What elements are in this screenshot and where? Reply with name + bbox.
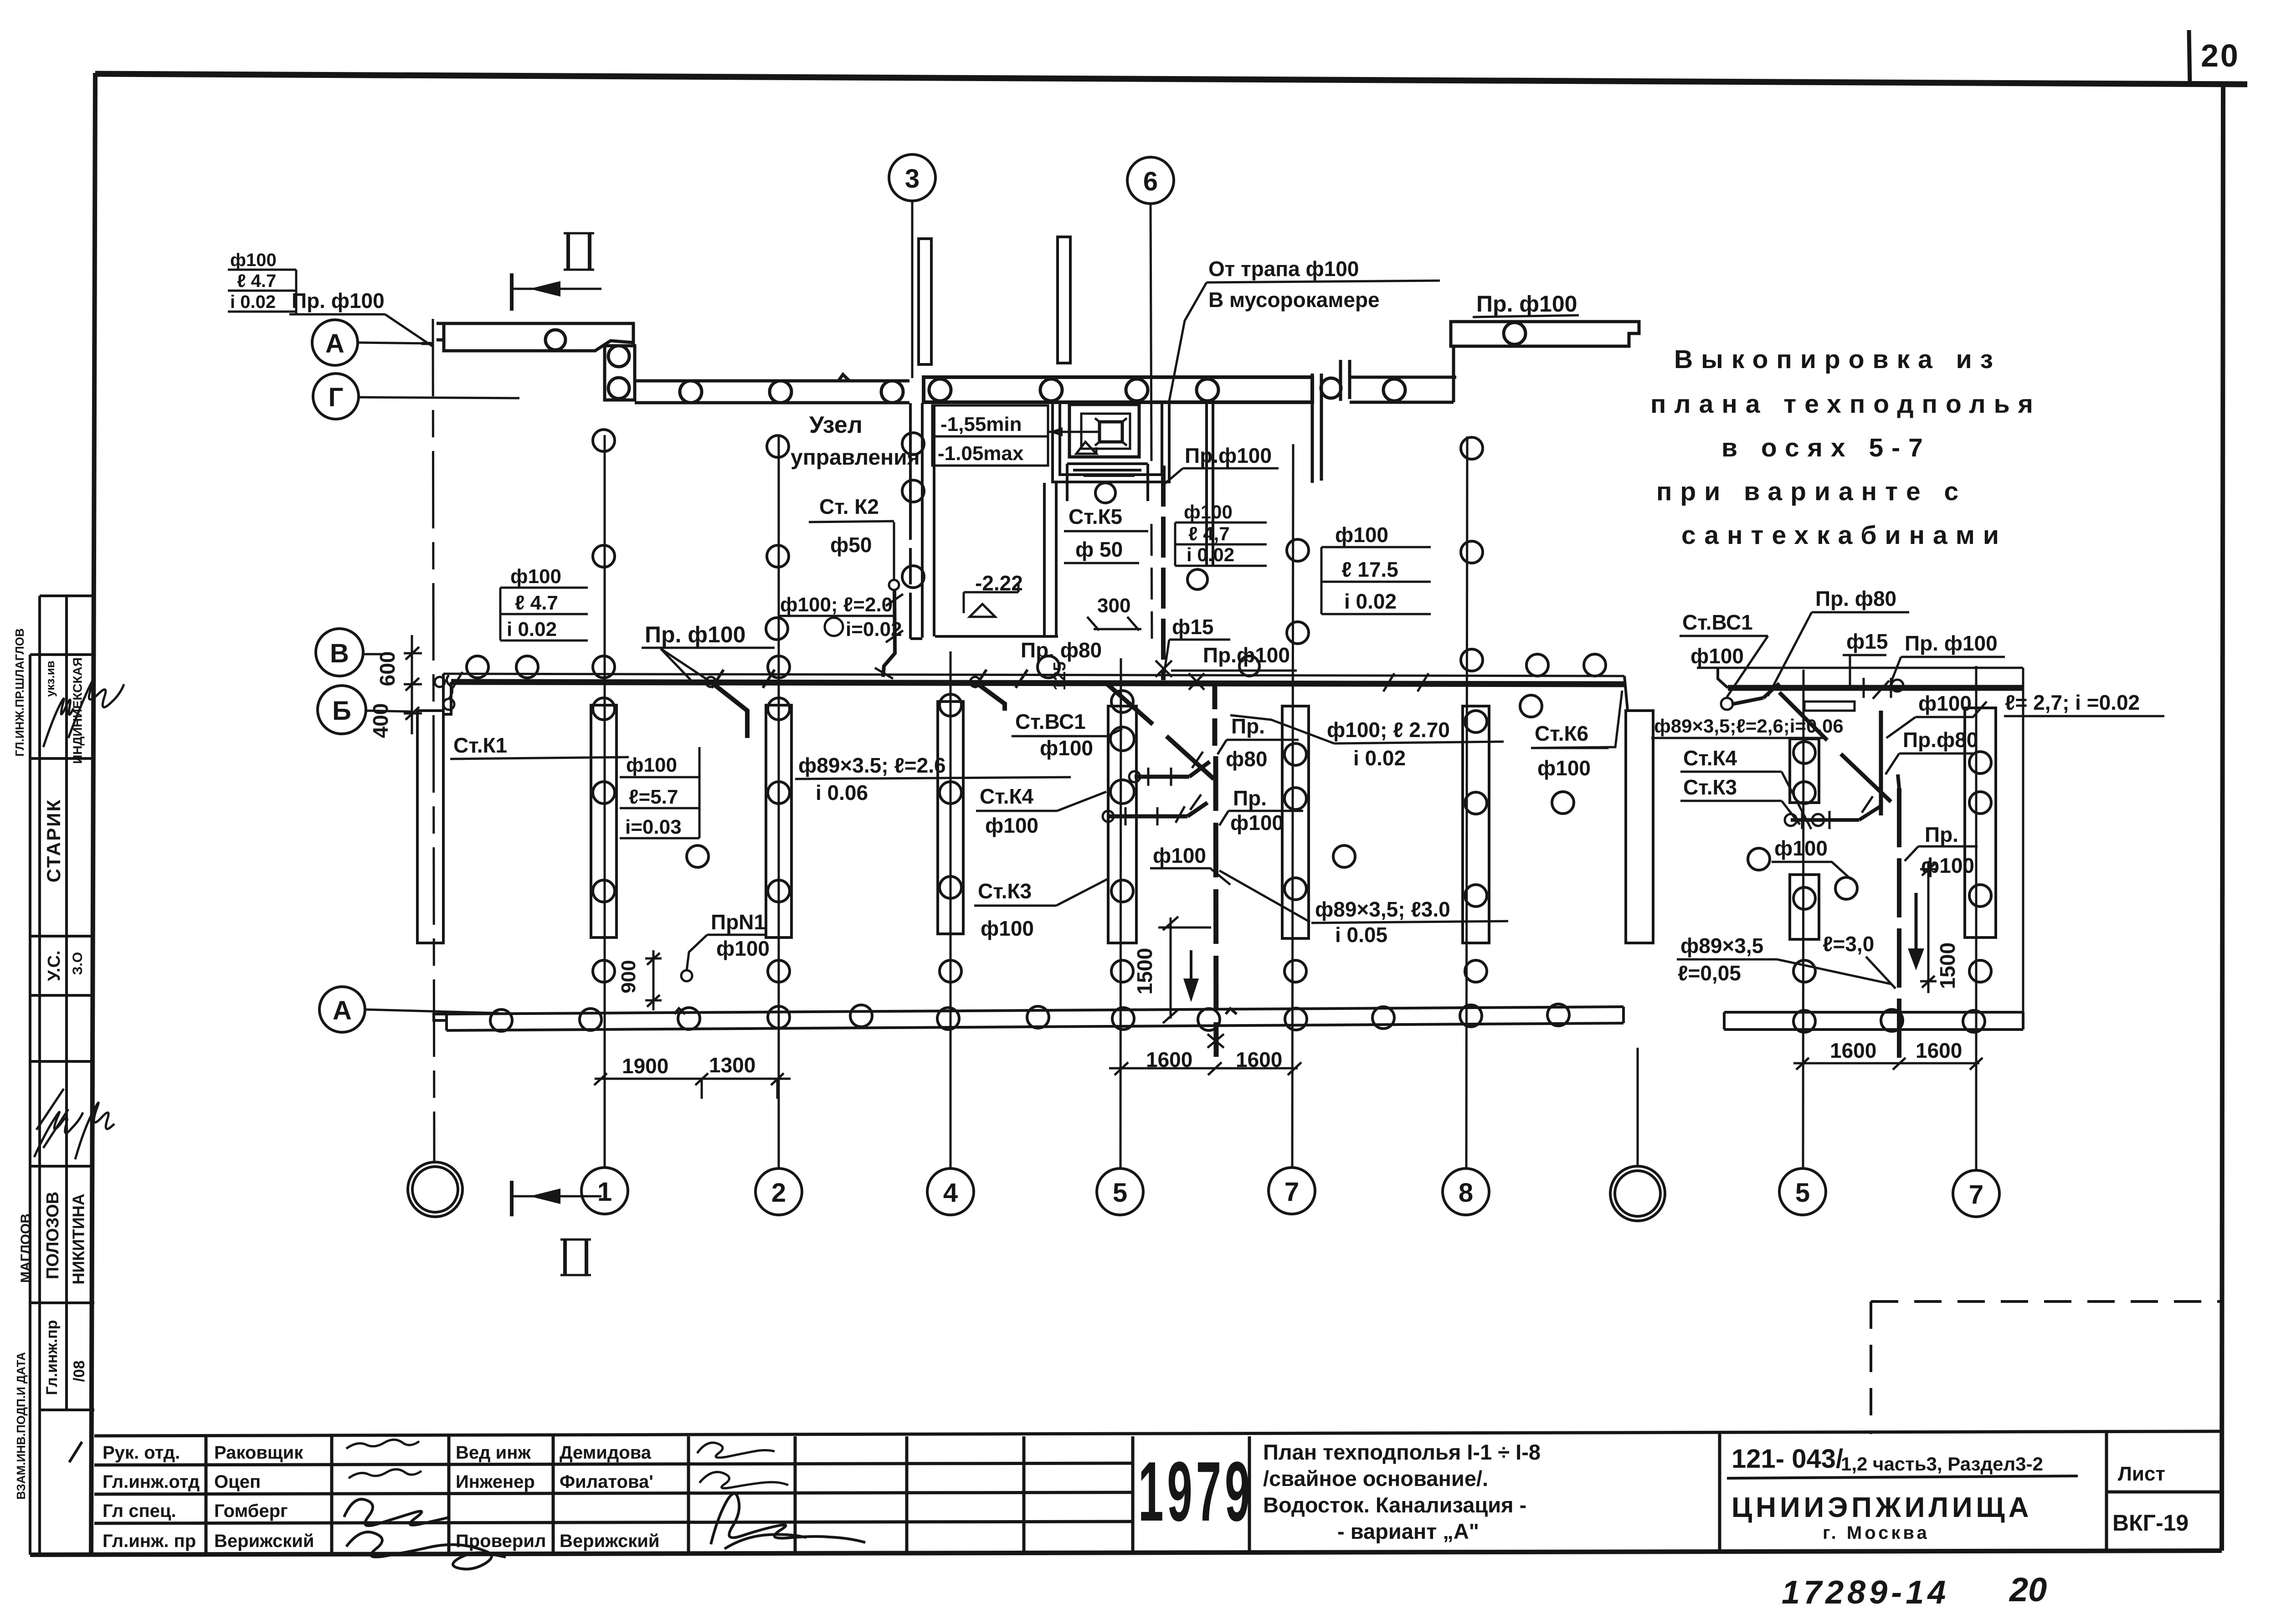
svg-text:Пр.ф100: Пр.ф100 xyxy=(1185,444,1272,467)
detail joint circles xyxy=(1785,814,1797,826)
svg-text:Ст.ВС1: Ст.ВС1 xyxy=(1015,710,1086,733)
svg-text:-2.22: -2.22 xyxy=(975,571,1023,595)
free pile circles between Б and А xyxy=(687,654,1606,982)
svg-text:600: 600 xyxy=(375,651,399,686)
svg-text:1: 1 xyxy=(597,1177,612,1207)
wall joint notch xyxy=(838,374,849,381)
stamp signature squiggle 2 xyxy=(34,1089,83,1157)
svg-text:ℓ=5.7: ℓ=5.7 xyxy=(629,786,678,808)
svg-text:ф100: ф100 xyxy=(1184,501,1233,523)
left step xyxy=(434,1014,447,1020)
leader Ст.К2 vertical xyxy=(893,522,895,579)
axis line 8 vertical xyxy=(1466,436,1467,1169)
underline Ст.ВС1 detail xyxy=(1680,635,1768,637)
svg-text:6: 6 xyxy=(1143,167,1158,196)
svg-text:ф15: ф15 xyxy=(1172,615,1213,639)
trap symbol hooks xyxy=(1095,418,1127,446)
pile circle xyxy=(1197,379,1218,401)
underline Пр ф80 mid xyxy=(1227,739,1299,741)
pile strip axis 8 xyxy=(1463,706,1489,943)
svg-text:1,2 часть3, Раздел3-2: 1,2 часть3, Раздел3-2 xyxy=(1841,1453,2043,1475)
small circle node detail left xyxy=(1721,698,1733,710)
pipe Б wall hatch marks xyxy=(452,672,1428,692)
leader ф100 2.70 xyxy=(1230,715,1334,743)
free pile circles row В xyxy=(467,430,1483,712)
axis circle 7 xyxy=(1269,1168,1315,1214)
svg-text:20: 20 xyxy=(2009,1571,2047,1609)
underline Ст.ВС1 main xyxy=(1012,735,1107,738)
underline ф89 3.0 xyxy=(1311,921,1508,923)
svg-text:СТАРИК: СТАРИК xyxy=(43,799,64,882)
underline Пр ф100 detail3 xyxy=(1918,845,1978,848)
svg-text:От трапа ф100: От трапа ф100 xyxy=(1208,257,1359,281)
svg-text:Пр. ф100: Пр. ф100 xyxy=(1905,631,1998,655)
branch pipe upper with ticks xyxy=(1135,762,1210,777)
svg-text:ф100: ф100 xyxy=(1921,854,1974,877)
corridor wall lines axis 3-4 xyxy=(910,403,1058,639)
svg-text:ф100; ℓ 2.70: ф100; ℓ 2.70 xyxy=(1327,718,1450,742)
pile circle xyxy=(881,381,903,403)
title block big signature col6 xyxy=(711,1494,865,1549)
svg-text:Ст.К3: Ст.К3 xyxy=(978,879,1032,903)
detail dim line 1600 1600 xyxy=(1793,1058,1983,1070)
svg-text:Гл.инж. пр: Гл.инж. пр xyxy=(103,1531,196,1551)
leader Ст.К4 К3 detail xyxy=(1782,772,1811,829)
title block big signature col3 xyxy=(344,1499,506,1569)
axis line 5 vertical xyxy=(1120,658,1121,1169)
stamp signature squiggle 1 xyxy=(43,699,73,747)
underline Пр ф100 far left xyxy=(289,313,385,316)
left stamp column grid xyxy=(30,596,94,1555)
level mark -2.22 xyxy=(964,582,1018,617)
stamp signature squiggle 1b xyxy=(68,677,124,738)
svg-text:ф100: ф100 xyxy=(626,754,677,776)
note text Выкопировка из плана xyxy=(1650,345,2041,550)
Ст.К2 drop pipe xyxy=(883,590,895,677)
detail pipe vertical ф100 xyxy=(1879,711,1883,815)
svg-text:МАГЛООВ: МАГЛООВ xyxy=(18,1214,33,1283)
pile circle xyxy=(1504,323,1526,344)
svg-text:400: 400 xyxy=(369,703,392,738)
leader Пр ф100 detail xyxy=(1891,657,1901,682)
svg-text:ф100: ф100 xyxy=(1230,811,1284,835)
svg-text:ф100: ф100 xyxy=(716,937,770,960)
svg-text:1979: 1979 xyxy=(1138,1444,1254,1539)
pipe elbow near axis 4 xyxy=(975,682,1005,711)
svg-text:ℓ 4.7: ℓ 4.7 xyxy=(237,271,276,291)
trap symbol box xyxy=(1099,422,1122,442)
leader l=3.0 xyxy=(1866,957,1896,989)
pile circle xyxy=(680,381,702,403)
row Б wall thin top line xyxy=(443,674,1624,676)
svg-text:3: 3 xyxy=(905,164,920,194)
title block signatures col3 xyxy=(346,1440,421,1478)
leader ф89x3.5 bottom xyxy=(1777,959,1891,984)
underline ф89x3.5 2.6 detail xyxy=(1651,737,1824,739)
svg-text:ВЗАМ.ИНВ.ПОДП.И ДАТА: ВЗАМ.ИНВ.ПОДП.И ДАТА xyxy=(14,1352,28,1500)
axis Г leader xyxy=(359,397,519,398)
svg-text:7: 7 xyxy=(1284,1177,1299,1207)
stamp signature squiggle 2b xyxy=(75,1102,114,1159)
pipe node small circles on Б xyxy=(435,677,445,687)
svg-text:Пр. ф80: Пр. ф80 xyxy=(1815,587,1896,610)
pile strip axis 7 xyxy=(1282,706,1309,938)
detail riser vertical lower xyxy=(1897,788,1901,1061)
underline l 2.7 xyxy=(2004,715,2164,717)
detail right dim line vertical xyxy=(2022,668,2024,1012)
pile strip left exterior blank axis xyxy=(417,711,443,943)
detail labels xyxy=(1654,587,2140,985)
svg-text:ЦНИИЭПЖИЛИЩА: ЦНИИЭПЖИЛИЩА xyxy=(1731,1492,2032,1523)
svg-text:ф100: ф100 xyxy=(1153,844,1206,867)
table ф100 2.0 axis3 xyxy=(780,594,902,640)
svg-text:Ст. К2: Ст. К2 xyxy=(819,495,879,518)
label ф89x3.5 3.0 xyxy=(1315,897,1450,947)
axis line 5 detail vertical xyxy=(1803,670,1803,1169)
svg-text:Оцеп: Оцеп xyxy=(214,1472,261,1492)
detail riser top part xyxy=(1898,774,1899,788)
small open circles pipe joints xyxy=(1103,811,1114,822)
ledge left tick xyxy=(421,340,444,343)
underline Ст.К4 main xyxy=(976,810,1057,812)
svg-text:З.О: З.О xyxy=(70,952,85,975)
axis circle A bottom xyxy=(319,987,365,1032)
sheet number tick xyxy=(2189,30,2190,86)
pile circles in row A wall xyxy=(490,1009,512,1031)
svg-text:i=0.03: i=0.03 xyxy=(625,816,682,838)
table ф100 17.5 axis7 xyxy=(1321,547,1431,614)
stamp slash mark xyxy=(69,1442,82,1462)
svg-text:Проверил: Проверил xyxy=(456,1531,546,1551)
pile strip axis 1 xyxy=(591,698,617,982)
svg-text:ВКГ-19: ВКГ-19 xyxy=(2112,1510,2189,1536)
svg-text:ℓ=3,0: ℓ=3,0 xyxy=(1823,932,1874,956)
detail pipe node ticks top xyxy=(1864,678,1891,699)
pile circle xyxy=(929,379,951,401)
svg-text:А: А xyxy=(333,996,352,1025)
corridor sewer riser thick xyxy=(1216,756,1216,1057)
wall block axis2 top xyxy=(605,346,635,400)
svg-text:Б: Б xyxy=(332,696,351,726)
underline ф89 main xyxy=(795,777,1071,779)
svg-text:Ст.К3: Ст.К3 xyxy=(1683,775,1737,799)
axis circle Г xyxy=(313,374,359,419)
svg-text:Гл спец.: Гл спец. xyxy=(103,1501,176,1521)
svg-text:План техподполья I-1 ÷ I-8: План техподполья I-1 ÷ I-8 xyxy=(1263,1440,1541,1464)
svg-text:ф89×3,5; ℓ3.0: ф89×3,5; ℓ3.0 xyxy=(1315,897,1450,921)
drain pipe from trap vertical xyxy=(1161,466,1165,483)
wall row Г left segment xyxy=(635,374,909,403)
svg-text:Раковщик: Раковщик xyxy=(214,1443,303,1463)
axis circle 4 xyxy=(927,1168,974,1215)
detail pile strip left lower xyxy=(1790,875,1819,939)
leader Ст.ВС1 detail xyxy=(1727,636,1768,697)
leader Пр ф80 mid xyxy=(1218,740,1227,754)
axis circle 5 detail xyxy=(1779,1168,1826,1215)
svg-text:ф89×3.5; ℓ=2.6: ф89×3.5; ℓ=2.6 xyxy=(798,753,946,777)
svg-text:ф100: ф100 xyxy=(230,250,277,270)
underline Пр ф100 lower mid xyxy=(1171,670,1297,672)
svg-text:-1,55min: -1,55min xyxy=(940,413,1022,435)
svg-text:ф100: ф100 xyxy=(1335,523,1388,547)
svg-text:7: 7 xyxy=(1969,1180,1983,1209)
small circle ПрN1 xyxy=(681,970,692,981)
frame right border xyxy=(2222,84,2223,1551)
svg-text:ГЛ.ИНЖ.ПР.ШЛАГЛОВ: ГЛ.ИНЖ.ПР.ШЛАГЛОВ xyxy=(13,628,26,757)
riser hatch x xyxy=(1156,661,1172,677)
dim 300 tick xyxy=(1087,617,1141,630)
svg-text:5: 5 xyxy=(1113,1178,1127,1208)
svg-text:Верижский: Верижский xyxy=(214,1531,314,1551)
leader Пр ф100 detail3 xyxy=(1905,846,1918,861)
axis circle 3 top xyxy=(889,154,935,201)
pile circle xyxy=(770,381,791,403)
corridor riser upper part xyxy=(1212,682,1218,747)
svg-text:Пр. ф100: Пр. ф100 xyxy=(645,622,745,647)
title block col2 names xyxy=(214,1443,314,1551)
leader Пр ф100 row В xyxy=(661,649,711,682)
fold mark dashed lines xyxy=(1871,1301,2222,1434)
axis 3 stem xyxy=(911,200,914,378)
svg-text:20: 20 xyxy=(2201,38,2240,73)
svg-text:укз.ив: укз.ив xyxy=(43,661,57,697)
title block year 1979 xyxy=(1138,1444,1254,1539)
svg-text:ℓ= 2,7; i =0.02: ℓ= 2,7; i =0.02 xyxy=(2005,691,2140,714)
title block drawing title xyxy=(1263,1440,1541,1543)
underline Пр ф80 detail2 xyxy=(1899,753,1973,755)
sanitary compartment Ст.К5 xyxy=(1067,464,1148,501)
axis line 4 vertical xyxy=(950,651,952,1169)
detail pile strip right xyxy=(1965,708,1996,938)
svg-text:Пр.: Пр. xyxy=(1925,823,1958,846)
svg-text:8: 8 xyxy=(1459,1178,1473,1208)
svg-text:ПрN1: ПрN1 xyxy=(711,910,766,934)
svg-text:ℓ 17.5: ℓ 17.5 xyxy=(1341,558,1398,581)
row Б wall left end cap xyxy=(443,674,451,714)
table ф100 5.7 axis1 low xyxy=(620,747,699,838)
leader Ст.ВС1 main xyxy=(1107,729,1122,736)
svg-text:ф100; ℓ=2.0: ф100; ℓ=2.0 xyxy=(780,594,893,616)
axis Б leader xyxy=(366,711,411,712)
svg-text:Ст.К6: Ст.К6 xyxy=(1535,722,1588,745)
svg-text:ф89×3,5: ф89×3,5 xyxy=(1680,934,1763,958)
frame top border xyxy=(95,74,2247,84)
underline Ст.К1 xyxy=(450,757,629,759)
axis circle blank left xyxy=(408,1162,462,1217)
svg-text:ф100: ф100 xyxy=(1537,756,1591,780)
detail free circles xyxy=(1748,848,1770,870)
leader ф15 detail xyxy=(1849,655,1851,686)
svg-text:НИКИТИНА: НИКИТИНА xyxy=(69,1194,88,1285)
axis circle 6 top xyxy=(1127,157,1174,204)
vent shaft rect right xyxy=(1058,237,1070,363)
detail bottom wall xyxy=(1724,1009,2023,1032)
svg-text:i 0.02: i 0.02 xyxy=(1344,589,1397,613)
underline ф15 detail xyxy=(1843,654,1886,656)
underline Ст.К2 xyxy=(809,521,894,522)
underline Пр ф80 horizontal xyxy=(1017,662,1110,664)
wall row Г right segment xyxy=(924,377,1312,402)
svg-text:Г: Г xyxy=(329,383,344,412)
leader ф89 3.0 xyxy=(1219,871,1310,922)
svg-text:2: 2 xyxy=(771,1178,786,1208)
svg-text:Выкопировка из: Выкопировка из xyxy=(1674,345,2001,374)
frame left border xyxy=(91,73,95,1555)
svg-text:Гомберг: Гомберг xyxy=(214,1501,288,1521)
svg-text:Пр. ф100: Пр. ф100 xyxy=(292,289,385,313)
table ф100 4.7 axis6 xyxy=(1175,523,1267,566)
row A wall band xyxy=(447,1007,1624,1014)
underline Пр ф100 detail xyxy=(1901,656,2005,658)
axis A bottom leader xyxy=(365,1009,499,1013)
table ф100 4.7 top-left xyxy=(228,270,296,314)
leader Ст.К6 xyxy=(1531,691,1622,748)
svg-text:ф80: ф80 xyxy=(1226,747,1267,771)
svg-text:Вед инж: Вед инж xyxy=(456,1443,531,1463)
label ф100 2.70 xyxy=(1327,718,1450,770)
pipe elbow near axis 2 xyxy=(711,682,747,738)
underline Ст.К6 xyxy=(1531,747,1608,749)
axis circle 2 xyxy=(755,1168,802,1215)
axis circle A top xyxy=(312,320,358,365)
pile strip right exterior blank axis xyxy=(1626,711,1653,943)
svg-text:i 0.02: i 0.02 xyxy=(230,292,276,312)
svg-text:/свайное основание/.: /свайное основание/. xyxy=(1263,1466,1488,1491)
trap leader arrow xyxy=(1048,431,1098,433)
svg-text:ф100: ф100 xyxy=(985,814,1038,837)
table lines ф100 2.0 xyxy=(778,615,894,617)
axis line 7 detail vertical xyxy=(1975,666,1978,1171)
axis line 1 vertical xyxy=(604,435,606,1168)
dim 1500 vertical main xyxy=(1158,917,1211,1023)
svg-text:1500: 1500 xyxy=(1936,943,1959,989)
leader Пр ф80 detail2 xyxy=(1886,753,1899,774)
pile circle in ledge xyxy=(545,330,565,350)
underline Пр ф100 upper mid xyxy=(1183,467,1279,470)
svg-text:300: 300 xyxy=(1097,594,1130,617)
svg-text:i 0.05: i 0.05 xyxy=(1335,923,1387,947)
axis circle 8 xyxy=(1443,1168,1489,1215)
Ст.К2 pipe hatches xyxy=(875,594,903,679)
svg-text:ф50: ф50 xyxy=(830,533,872,557)
row Б wall thick line xyxy=(451,682,1626,684)
underline ф100 detail2 xyxy=(1772,862,1851,879)
leader ф15 xyxy=(1165,640,1169,670)
svg-text:125: 125 xyxy=(1050,661,1069,690)
svg-text:ф89×3,5;ℓ=2,6;i=0.06: ф89×3,5;ℓ=2,6;i=0.06 xyxy=(1654,715,1844,737)
svg-text:Верижский: Верижский xyxy=(560,1531,659,1551)
svg-text:В мусорокамере: В мусорокамере xyxy=(1208,288,1380,312)
dim line 1600 1600 main xyxy=(1109,1062,1301,1075)
riser through wall hatch xyxy=(1207,1034,1224,1048)
svg-text:Узел: Узел xyxy=(809,412,863,438)
svg-text:ф100: ф100 xyxy=(510,565,561,588)
underline Ст.К5 box bottom xyxy=(1064,562,1139,564)
svg-text:г. Москва: г. Москва xyxy=(1823,1523,1930,1543)
leader Пр ф100 upper mid xyxy=(1165,468,1183,484)
svg-text:Гл.инж.отд: Гл.инж.отд xyxy=(103,1472,200,1492)
detail pipe elbow top left xyxy=(1731,683,1779,704)
frame bottom border xyxy=(30,1551,2222,1555)
table ф100 4.7 axis1 xyxy=(500,588,588,640)
svg-text:ф100: ф100 xyxy=(1918,692,1972,715)
svg-text:ℓ 4.7: ℓ 4.7 xyxy=(515,592,558,614)
svg-text:i 0.02: i 0.02 xyxy=(1353,746,1406,770)
top ledge wall row Д xyxy=(421,323,633,351)
axis circle blank right xyxy=(1610,1166,1665,1221)
svg-text:ℓ 4,7: ℓ 4,7 xyxy=(1188,523,1230,544)
detail short wall stub xyxy=(1804,702,1855,711)
pipe kink marks axis2 xyxy=(712,670,775,688)
pile circle xyxy=(1040,379,1062,401)
level mark box -1.55 xyxy=(932,405,1048,466)
svg-text:Ст.К4: Ст.К4 xyxy=(1683,746,1737,770)
svg-text:ф100: ф100 xyxy=(981,917,1034,940)
flow arrow down xyxy=(1190,950,1192,989)
title block signatures col6 xyxy=(697,1443,788,1488)
detail top wall thin line xyxy=(1697,667,2023,669)
dim 900 vertical xyxy=(645,950,662,1010)
svg-text:Пр.: Пр. xyxy=(1233,786,1267,810)
title block grid xyxy=(94,1431,2222,1554)
trap enclosure inner xyxy=(1081,414,1130,449)
underline Ст.К3 detail xyxy=(1680,800,1782,802)
small circle before i=0.02 xyxy=(825,618,843,636)
svg-text:121- 043/: 121- 043/ xyxy=(1731,1444,1843,1474)
svg-text:Филатова': Филатова' xyxy=(560,1472,653,1492)
svg-text:Гл.инж.пр: Гл.инж.пр xyxy=(43,1320,61,1395)
leader Пр ф80 detail xyxy=(1768,612,1812,696)
svg-text:плана техподполья: плана техподполья xyxy=(1650,389,2041,419)
svg-text:У.С.: У.С. xyxy=(45,950,64,981)
underline от трапа xyxy=(1207,281,1440,282)
svg-text:- вариант „А": - вариант „А" xyxy=(1337,1519,1479,1543)
underline Ст.К5 xyxy=(1064,530,1148,533)
svg-text:в осях 5-7: в осях 5-7 xyxy=(1721,433,1931,462)
wall joggles xyxy=(674,1009,1237,1014)
svg-text:Инженер: Инженер xyxy=(456,1472,535,1492)
underline Пр ф100 row В left xyxy=(642,647,775,649)
svg-text:ℓ=0,05: ℓ=0,05 xyxy=(1678,961,1741,985)
svg-text:Ст.К1: Ст.К1 xyxy=(453,733,507,757)
svg-text:1300: 1300 xyxy=(709,1053,755,1077)
diagonal pipe dashed axis5 xyxy=(1106,683,1214,779)
garbage chamber wall verticals xyxy=(1207,401,1213,565)
svg-text:ф15: ф15 xyxy=(1846,630,1888,653)
svg-text:А: А xyxy=(325,329,344,359)
underline ф100 2.70 xyxy=(1334,742,1504,743)
svg-text:i 0.02: i 0.02 xyxy=(1187,544,1234,565)
small circle node top xyxy=(1891,680,1903,692)
dim line 1900 1300 xyxy=(594,1073,791,1099)
svg-text:1600: 1600 xyxy=(1916,1039,1962,1062)
svg-text:Ст.К4: Ст.К4 xyxy=(980,784,1034,808)
svg-text:В: В xyxy=(330,639,349,668)
pile strip axis 4 xyxy=(938,694,963,982)
underline ф89x3.5 bottom detail xyxy=(1677,958,1777,961)
corridor pile circles xyxy=(902,433,924,455)
detail branch pipe with ticks xyxy=(1791,805,1882,820)
svg-text:управления: управления xyxy=(791,446,920,470)
section mark II bottom xyxy=(512,1181,601,1275)
leader от трапа xyxy=(1169,282,1207,401)
svg-text:5: 5 xyxy=(1795,1178,1810,1208)
axis 6 stem xyxy=(1151,203,1151,461)
leader Пр ф100 mid2 xyxy=(1219,811,1228,825)
detail diagonal pipe dashed xyxy=(1779,692,1891,802)
axis circle В xyxy=(316,629,363,676)
pipe kink marks axis4 xyxy=(975,670,1028,688)
